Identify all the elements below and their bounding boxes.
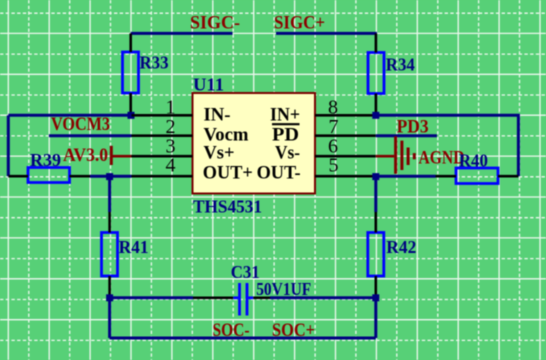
resistor R40 xyxy=(436,168,519,184)
svg-text:R41: R41 xyxy=(119,237,149,257)
wire pin4 net xyxy=(90,175,132,178)
svg-text:R33: R33 xyxy=(140,53,169,73)
wire bottom horizontal xyxy=(110,337,376,340)
pin 7 xyxy=(315,134,376,137)
node junction pin4 xyxy=(106,173,113,180)
wire mid right xyxy=(270,296,376,299)
pin 1 xyxy=(132,114,193,117)
svg-text:Vs+: Vs+ xyxy=(204,143,235,164)
svg-text:IN-: IN- xyxy=(204,104,231,125)
node junction pin1 xyxy=(128,112,135,119)
svg-text:SOC-: SOC- xyxy=(213,320,250,341)
pin 2 xyxy=(132,134,193,137)
svg-text:AV3.0: AV3.0 xyxy=(63,145,108,166)
wire left vertical xyxy=(7,115,10,176)
power port AGND xyxy=(376,136,415,174)
svg-text:Vs-: Vs- xyxy=(275,143,300,164)
power port AV3.0 bar xyxy=(111,146,131,165)
node junction pin8 xyxy=(372,112,379,119)
resistor R42 xyxy=(368,212,384,298)
node junction R41 bottom xyxy=(106,294,113,301)
resistor R33 xyxy=(123,33,139,115)
pin 3 xyxy=(132,155,193,158)
svg-text:5: 5 xyxy=(329,155,339,177)
wire pin8 to right xyxy=(376,115,519,176)
svg-text:OUT+: OUT+ xyxy=(203,162,253,183)
svg-text:4: 4 xyxy=(166,155,176,177)
wire R41 top xyxy=(108,176,111,212)
wire pin5 to R40 xyxy=(376,175,436,178)
wire bottom right vertical xyxy=(374,298,377,338)
resistor R34 xyxy=(368,33,384,115)
wire SIGC- horizontal xyxy=(131,32,233,35)
op-amp U11 body xyxy=(193,93,316,194)
wire bottom left vertical xyxy=(108,298,111,338)
svg-text:SIGC+: SIGC+ xyxy=(274,13,325,34)
wire R42 top xyxy=(374,176,377,212)
capacitor C31 xyxy=(193,283,270,316)
wire VOCM3 xyxy=(49,134,132,137)
resistor R39 xyxy=(8,168,90,183)
pin 6 xyxy=(315,155,376,158)
pin 8 xyxy=(315,114,376,117)
svg-text:THS4531: THS4531 xyxy=(193,197,262,217)
node junction pin5 xyxy=(372,173,379,180)
svg-text:VOCM3: VOCM3 xyxy=(51,114,110,135)
svg-text:PD3: PD3 xyxy=(397,117,429,138)
wire SIGC+ horizontal xyxy=(276,32,377,35)
svg-text:50V1UF: 50V1UF xyxy=(256,279,311,299)
svg-text:U11: U11 xyxy=(193,75,224,95)
svg-text:SOC+: SOC+ xyxy=(272,320,315,341)
wire pin1 net xyxy=(8,114,131,117)
pin 5 xyxy=(315,175,376,178)
pin 4 xyxy=(132,175,193,178)
svg-text:R34: R34 xyxy=(386,55,415,75)
pin name PD with overline xyxy=(272,124,300,145)
wire PD3 xyxy=(376,134,437,137)
resistor R41 xyxy=(102,212,118,298)
svg-text:AGND: AGND xyxy=(419,148,465,169)
svg-text:SIGC-: SIGC- xyxy=(190,13,240,34)
svg-text:OUT-: OUT- xyxy=(257,162,301,183)
wire mid left xyxy=(110,296,193,299)
svg-text:IN+: IN+ xyxy=(270,104,300,125)
svg-text:R42: R42 xyxy=(386,237,416,257)
node junction R42 bottom xyxy=(372,294,379,301)
